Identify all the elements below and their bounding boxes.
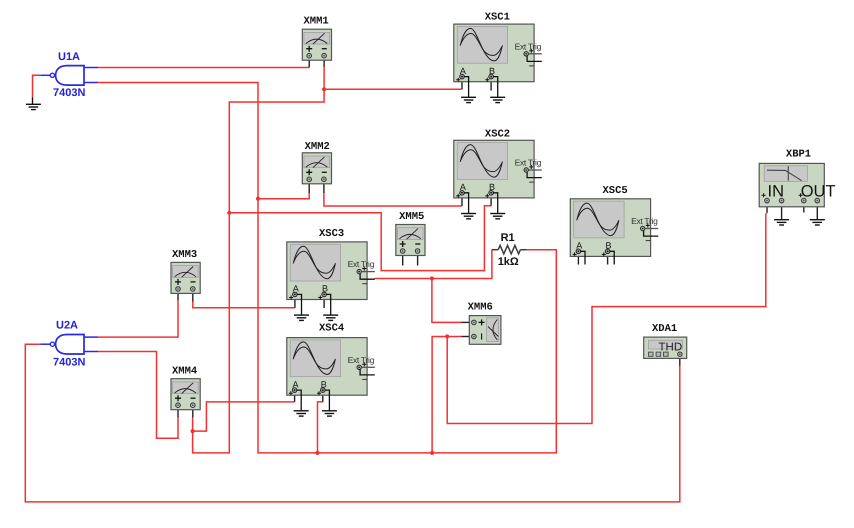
svg-text:R1: R1 bbox=[501, 232, 515, 244]
wire XSC3 ExtTrig to R1 left bbox=[375, 250, 492, 279]
wire branch XMM4 junction to XSC4 A+ bbox=[193, 402, 295, 431]
svg-text:XSC2: XSC2 bbox=[485, 129, 510, 141]
resistor R1 1kOhm bbox=[492, 232, 527, 268]
oscilloscope XSC1 bbox=[454, 12, 542, 98]
wire XMM6 - to XBP1 IN+ bbox=[447, 213, 766, 423]
svg-text:U1A: U1A bbox=[58, 51, 80, 63]
node junction XSC4 B bbox=[315, 451, 319, 455]
oscilloscope XSC4 bbox=[287, 323, 375, 411]
svg-text:Ext Trig: Ext Trig bbox=[631, 216, 658, 226]
wire XMM2 - to XSC2 A+ bbox=[324, 193, 462, 206]
wire U1A input B to vertical net B down to bottom bus, up to R1 right bbox=[98, 83, 556, 453]
svg-text:XMM3: XMM3 bbox=[172, 249, 197, 261]
svg-text:XMM1: XMM1 bbox=[304, 16, 329, 28]
distortion analyzer XDA1 bbox=[644, 323, 687, 366]
svg-text:7403N: 7403N bbox=[53, 357, 85, 369]
svg-text:U2A: U2A bbox=[56, 320, 78, 332]
node junction netA branch bbox=[227, 211, 231, 215]
svg-text:Ext Trig: Ext Trig bbox=[515, 158, 542, 168]
wire junction down vertical net A to XMM4 - bbox=[193, 89, 325, 453]
svg-text:7403N: 7403N bbox=[53, 87, 85, 99]
svg-text:XSC3: XSC3 bbox=[319, 228, 344, 240]
svg-text:IN: IN bbox=[768, 182, 785, 200]
wire XMM1 - down to junction bbox=[323, 66, 325, 89]
wire branch XMM6 - from bottom bus bbox=[432, 337, 461, 453]
multimeter XMM4 bbox=[171, 366, 200, 418]
svg-text:XSC4: XSC4 bbox=[319, 323, 344, 335]
svg-text:XMM5: XMM5 bbox=[399, 211, 424, 223]
svg-text:Ext Trig: Ext Trig bbox=[348, 259, 375, 269]
op-amp U1A nand gate 7403N bbox=[40, 51, 98, 99]
node junction XMM6- bbox=[445, 334, 449, 338]
wire junction to XSC1 A+ bbox=[324, 88, 462, 90]
svg-text:XBP1: XBP1 bbox=[786, 149, 811, 161]
wire U1A input A to XMM1 + bbox=[98, 67, 309, 69]
wire branch net A to XSC2 B+ bbox=[229, 206, 491, 271]
ground XSC2 B bbox=[490, 214, 505, 219]
multimeter XMM3 bbox=[171, 249, 200, 302]
multimeter XMM1 bbox=[302, 16, 331, 68]
svg-text:XSC1: XSC1 bbox=[485, 12, 510, 24]
svg-text:XMM2: XMM2 bbox=[305, 141, 330, 153]
wire U2A output to XDA1 input bbox=[25, 344, 680, 502]
svg-text:XSC5: XSC5 bbox=[603, 185, 628, 197]
wire branch XMM6 + from ExtTrig net bbox=[432, 279, 462, 323]
ground XSC2 A bbox=[461, 214, 476, 219]
multimeter XMM2 bbox=[302, 141, 331, 193]
svg-text:THD: THD bbox=[659, 341, 683, 353]
oscilloscope XSC2 bbox=[454, 129, 542, 214]
node junction XMM2+ bbox=[256, 197, 260, 201]
wire XMM3 - to XSC3 A+ bbox=[193, 302, 295, 308]
multimeter XMM5 bbox=[396, 211, 425, 265]
svg-text:Ext Trig: Ext Trig bbox=[515, 41, 542, 51]
wire U2A input B to XMM4 + bbox=[98, 352, 178, 439]
node junction XMM4- bbox=[191, 429, 195, 433]
svg-text:XDA1: XDA1 bbox=[652, 323, 677, 335]
svg-text:1kΩ: 1kΩ bbox=[498, 256, 519, 268]
op-amp U2A nand gate 7403N bbox=[40, 320, 98, 369]
svg-text:XMM4: XMM4 bbox=[172, 366, 197, 378]
oscilloscope XSC5 bbox=[570, 185, 658, 265]
bode plotter XBP1 bbox=[759, 149, 835, 220]
ground XSC4 A bbox=[294, 411, 309, 416]
ground XBP1 IN- bbox=[774, 220, 789, 225]
ground XSC1 B bbox=[490, 97, 505, 102]
node junction XMM6+ bbox=[430, 276, 434, 280]
wire U1A output to ground bbox=[33, 75, 41, 97]
ground XSC1 A bbox=[461, 97, 476, 102]
ground XBP1 OUT- bbox=[810, 220, 825, 225]
node junction XMM1- bbox=[322, 87, 326, 91]
svg-text:OUT: OUT bbox=[801, 182, 836, 200]
ground XSC3 B bbox=[323, 315, 338, 320]
multimeter XMM6 rotated bbox=[462, 302, 501, 345]
node junction bottom bus XMM6 bbox=[430, 451, 434, 455]
ground XSC4 B bbox=[322, 411, 337, 416]
wire branch XSC4 B+ from bottom bus bbox=[318, 402, 323, 453]
wire XMM3 + to U2A input A bbox=[98, 300, 178, 337]
svg-text:XMM6: XMM6 bbox=[468, 302, 493, 314]
ground XSC3 A bbox=[294, 315, 309, 320]
svg-text:Ext Trig: Ext Trig bbox=[348, 355, 375, 365]
ground below U1A output bbox=[26, 98, 41, 110]
oscilloscope XSC3 bbox=[287, 228, 375, 315]
wire branch XMM2 + from net B bbox=[258, 193, 309, 199]
